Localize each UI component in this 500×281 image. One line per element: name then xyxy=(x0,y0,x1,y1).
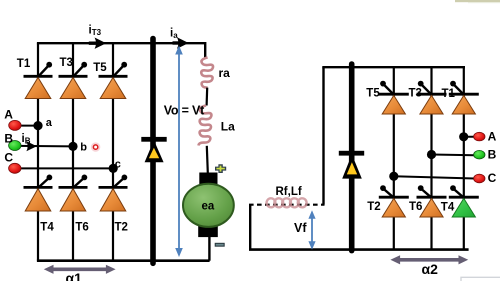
svg-text:T3: T3 xyxy=(409,88,422,100)
svg-text:iB: iB xyxy=(22,133,31,145)
svg-text:ia: ia xyxy=(170,28,178,40)
svg-text:T6: T6 xyxy=(75,222,88,234)
svg-text:ra: ra xyxy=(219,66,231,80)
svg-text:A: A xyxy=(488,130,497,144)
svg-text:A: A xyxy=(4,107,13,121)
svg-text:T5: T5 xyxy=(366,88,380,100)
svg-text:T1: T1 xyxy=(17,58,31,70)
svg-text:C: C xyxy=(488,171,497,185)
svg-text:T6: T6 xyxy=(409,201,422,213)
svg-text:c: c xyxy=(115,159,121,171)
svg-text:Vo = Vt: Vo = Vt xyxy=(164,104,205,118)
svg-text:B: B xyxy=(488,147,497,161)
svg-text:T4: T4 xyxy=(40,222,54,234)
svg-text:T4: T4 xyxy=(441,202,455,214)
svg-text:B: B xyxy=(4,132,13,146)
svg-text:ea: ea xyxy=(202,201,215,213)
svg-text:iT3: iT3 xyxy=(89,25,102,38)
svg-text:Rf,Lf: Rf,Lf xyxy=(276,186,302,198)
svg-text:T3: T3 xyxy=(60,57,73,69)
svg-text:Vf: Vf xyxy=(294,221,307,235)
svg-text:C: C xyxy=(4,150,13,164)
svg-text:T2: T2 xyxy=(367,201,380,213)
svg-text:b: b xyxy=(80,141,87,153)
svg-text:α2: α2 xyxy=(422,261,439,277)
svg-text:T1: T1 xyxy=(442,88,456,100)
svg-text:a: a xyxy=(46,117,53,129)
svg-text:T5: T5 xyxy=(93,62,107,74)
svg-text:T2: T2 xyxy=(115,222,128,234)
svg-text:α1: α1 xyxy=(66,270,83,281)
svg-text:La: La xyxy=(221,120,235,134)
